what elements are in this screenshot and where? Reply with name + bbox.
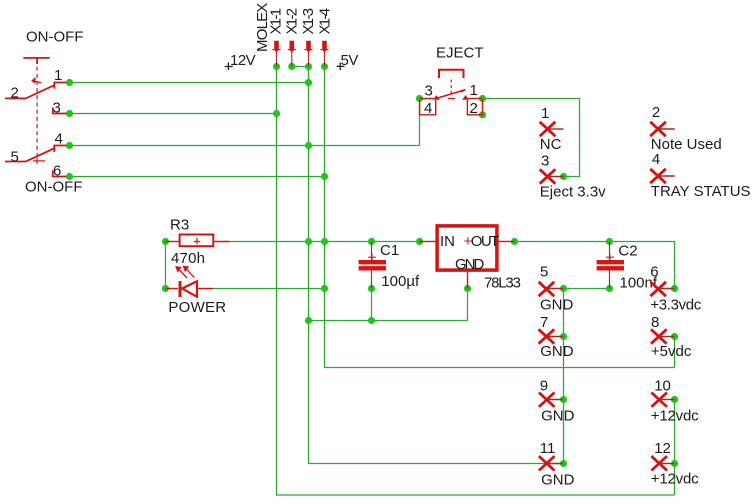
- svg-text:6: 6: [53, 163, 61, 180]
- svg-text:3: 3: [425, 83, 433, 100]
- svg-text:X1-1: X1-1: [268, 8, 285, 34]
- regulator U1 78L33: [420, 226, 515, 289]
- junction (514.5,241.5): [511, 238, 518, 245]
- junction (371.5,241.5): [368, 238, 375, 245]
- wire pin5 to C2 bottom: [564, 288, 610, 290]
- connector X1 MOLEX pins: [273, 41, 329, 67]
- wire row pin6 to X1-4: [70, 176, 325, 178]
- wire regulator OUT rail to pin 6: [515, 242, 675, 289]
- svg-text:1: 1: [54, 67, 62, 84]
- svg-text:1: 1: [470, 82, 478, 99]
- pin 1 NC: [540, 122, 564, 136]
- svg-text:10: 10: [654, 378, 671, 395]
- junction (276.5,113.5): [273, 110, 280, 117]
- junction (674.5,463.5): [671, 460, 678, 467]
- svg-text:X1-4: X1-4: [317, 8, 334, 34]
- svg-text:5: 5: [11, 149, 19, 166]
- junction (69.5,82.5): [66, 79, 73, 86]
- svg-text:R3: R3: [170, 217, 189, 234]
- wire row pin1 to X1-3: [70, 82, 309, 84]
- svg-text:X1-3: X1-3: [300, 8, 317, 34]
- svg-text:OUT: OUT: [471, 233, 499, 250]
- svg-text:78L33: 78L33: [484, 275, 521, 292]
- wire X1-1 vertical down and bottom run to pin 12: [277, 67, 675, 496]
- pin 11 GND: [539, 456, 563, 470]
- junction (419.5,241.5): [416, 238, 423, 245]
- svg-text:7: 7: [540, 314, 548, 331]
- svg-text:2: 2: [11, 85, 19, 102]
- junction (563.5,463.5): [560, 460, 567, 467]
- pin 7 GND: [539, 329, 564, 343]
- svg-text:+12vdc: +12vdc: [651, 470, 699, 487]
- svg-text:ON-OFF: ON-OFF: [26, 29, 84, 46]
- junction (563.5,176.5): [560, 173, 567, 180]
- svg-text:5: 5: [540, 264, 548, 281]
- wire pin8 down to +5 run: [674, 337, 676, 368]
- junction (324.5,66.5): [321, 63, 328, 70]
- svg-text:+5vdc: +5vdc: [651, 343, 692, 360]
- wire X1-3 vertical down and run to pin 11: [309, 67, 564, 464]
- svg-text:Eject 3.3v: Eject 3.3v: [540, 184, 606, 201]
- junction (69.5,145.5): [66, 142, 73, 149]
- svg-text:2: 2: [652, 104, 660, 121]
- pin 3 Eject 3.3v: [540, 169, 564, 183]
- svg-text:11: 11: [540, 440, 556, 457]
- svg-text:9: 9: [540, 378, 548, 395]
- junction (467.5,288.5): [464, 285, 471, 292]
- pin 2 Note Used: [650, 122, 675, 136]
- junction (308.5,66.5): [305, 63, 312, 70]
- wire GND column pins 5-11: [563, 289, 565, 464]
- junction (165.5,241.5): [162, 238, 169, 245]
- capacitor C1: [359, 242, 386, 289]
- svg-text:100µf: 100µf: [381, 273, 420, 290]
- svg-text:GND: GND: [455, 256, 485, 273]
- svg-text:GND: GND: [541, 408, 575, 425]
- junction (308.5,241.5): [305, 238, 312, 245]
- svg-text:12: 12: [654, 440, 671, 457]
- junction (308.5,145.5): [305, 142, 312, 149]
- svg-text:470h: 470h: [171, 250, 205, 267]
- junction (371.5,320.5): [368, 317, 375, 324]
- junction (674.5,336.5): [671, 333, 678, 340]
- junction (563.5,288.5): [560, 285, 567, 292]
- svg-text:NC: NC: [540, 136, 562, 153]
- wire row pin3 to X1-1: [70, 113, 277, 115]
- svg-text:2: 2: [470, 100, 478, 117]
- resistor R3: [166, 235, 230, 247]
- svg-text:GND: GND: [540, 343, 574, 360]
- svg-text:6: 6: [650, 264, 658, 281]
- junction (563.5,336.5): [560, 333, 567, 340]
- wire main rail R3 to regulator IN: [230, 241, 420, 243]
- junction (324.5,241.5): [321, 238, 328, 245]
- junction (308.5,82.5): [305, 79, 312, 86]
- pin 8 +5vdc: [651, 329, 675, 343]
- wire C1 bottom down: [371, 289, 373, 321]
- wire EJECT left pin down to row pin4: [419, 99, 421, 146]
- junction (674.5,399.5): [671, 396, 678, 403]
- pin 4 TRAY STATUS: [650, 169, 675, 183]
- svg-text:C1: C1: [380, 242, 399, 259]
- wire R3 left to LED left: [165, 242, 167, 289]
- wire X1-2 to X1-3 bridge: [292, 66, 309, 68]
- wire pin10 to pin12 to bottom run: [674, 400, 676, 496]
- svg-text:EJECT: EJECT: [436, 45, 484, 62]
- svg-text:3: 3: [541, 153, 549, 170]
- svg-text:4: 4: [424, 100, 432, 117]
- wire EJECT right pin to Eject 3.3v pin: [483, 99, 580, 177]
- svg-text:C2: C2: [618, 243, 637, 260]
- svg-text:1: 1: [541, 105, 549, 122]
- svg-text:3: 3: [53, 100, 61, 117]
- svg-text:Note Used: Note Used: [651, 136, 722, 153]
- junction (165.5,288.5): [162, 285, 169, 292]
- junction (419.5,98.5): [416, 95, 423, 102]
- svg-text:+3.3vdc: +3.3vdc: [650, 297, 701, 314]
- pin 10 +12vdc: [651, 393, 674, 407]
- pin 9 GND: [539, 393, 563, 407]
- pin 5 GND: [539, 282, 564, 296]
- wire regulator GND down: [467, 289, 469, 321]
- pushbutton EJECT: [420, 70, 483, 115]
- pin 12 +12vdc: [651, 456, 674, 470]
- svg-text:X1-2: X1-2: [284, 8, 301, 34]
- junction (324.5,288.5): [321, 285, 328, 292]
- svg-text:POWER: POWER: [168, 299, 226, 316]
- svg-text:4: 4: [652, 151, 660, 168]
- svg-text:+12vdc: +12vdc: [651, 408, 699, 425]
- svg-text:4: 4: [55, 131, 63, 148]
- junction (308.5,320.5): [305, 317, 312, 324]
- svg-text:TRAY STATUS: TRAY STATUS: [651, 183, 751, 200]
- wire ground row under C1: [309, 320, 468, 322]
- wire row pin4 to EJECT: [70, 145, 420, 147]
- wire LED row to X1-4: [213, 288, 325, 290]
- junction (482.5,98.5): [479, 95, 486, 102]
- wire X1-4 vertical down and run toward pin 8: [325, 67, 675, 368]
- pin 6 +3.3vdc: [650, 282, 674, 296]
- LED POWER: [166, 266, 214, 297]
- junction (69.5,176.5): [66, 173, 73, 180]
- junction (674.5,288.5): [671, 285, 678, 292]
- junction (324.5,176.5): [321, 173, 328, 180]
- junction (371.5,288.5): [368, 285, 375, 292]
- svg-text:GND: GND: [540, 297, 574, 314]
- junction (69.5,113.5): [66, 110, 73, 117]
- svg-text:ON-OFF: ON-OFF: [25, 179, 83, 196]
- svg-text:IN: IN: [440, 233, 455, 250]
- junction (609.5,288.5): [606, 285, 613, 292]
- junction (563.5,399.5): [560, 396, 567, 403]
- junction (482.5,114.8): [479, 111, 486, 118]
- svg-text:12V: 12V: [230, 52, 256, 69]
- switch S1 ON-OFF: [5, 58, 67, 177]
- svg-text:GND: GND: [541, 472, 575, 489]
- svg-text:8: 8: [651, 314, 659, 331]
- junction (291.8,66.5): [288, 63, 295, 70]
- junction (276.5,66.5): [273, 63, 280, 70]
- junction (609.5,241.5): [606, 238, 613, 245]
- capacitor C2: [597, 242, 624, 289]
